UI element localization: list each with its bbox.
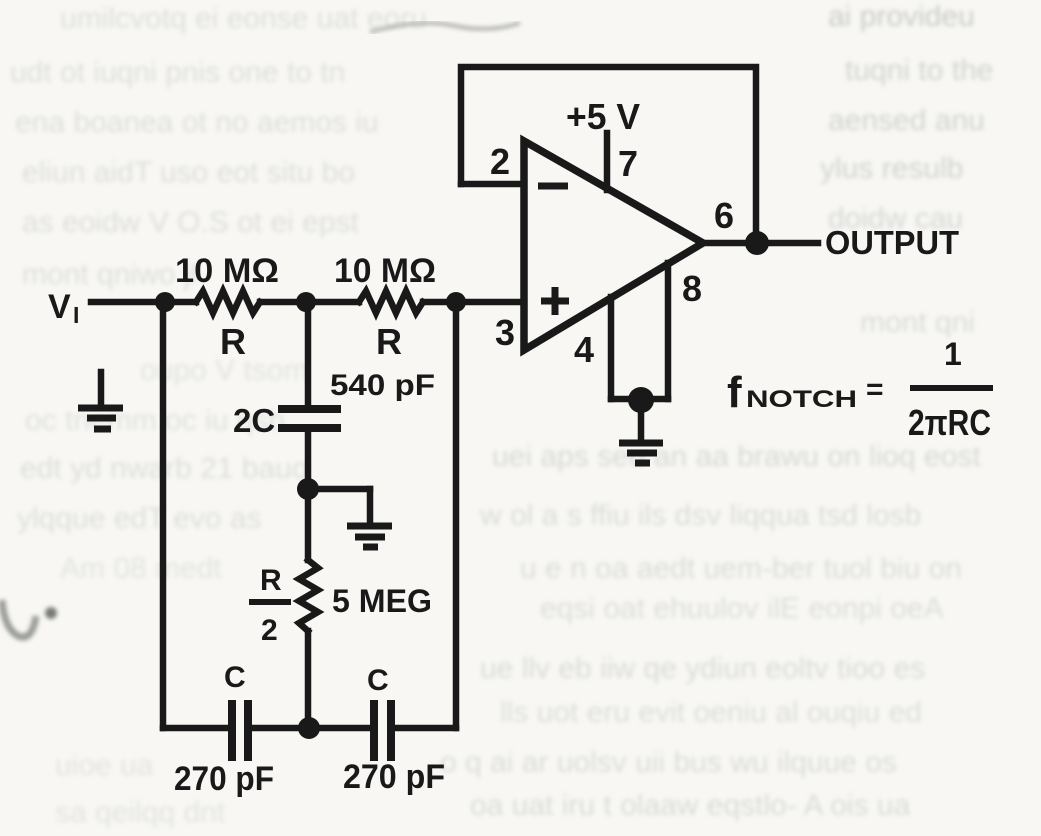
wire: feedback loop from pin 2 up over to output [461,67,756,243]
svg-text:ue llv eb iiw qe ydiun eoltv t: ue llv eb iiw qe ydiun eoltv tioo es [480,652,925,685]
svg-text:mont qni: mont qni [860,306,975,339]
svg-text:1: 1 [944,336,962,372]
capacitor C left (270 pF) [232,700,248,761]
junction node B [446,292,466,312]
ghost U. handwriting [2,600,57,637]
ground (op-amp pins 4,8) [619,443,663,463]
wire: middle vertical node A2 to capacitor 2C [305,302,312,405]
ground (input, floating) [98,372,105,405]
svg-text:ylqque edT evo as: ylqque edT evo as [17,502,262,535]
svg-text:oa uat iru t olaaw eqstlo- A o: oa uat iru t olaaw eqstlo- A ois ua [470,789,911,822]
wire: right vertical node B to bottom rail [453,302,460,728]
wire: bottom rail middle segment [251,725,370,732]
resistor R/2 (5 MEG) [299,560,318,631]
svg-text:o q ai ar uolsv uii bus wu ilq: o q ai ar uolsv uii bus wu ilquue os [440,746,897,779]
junction node A [155,292,175,312]
svg-text:NOTCH: NOTCH [746,386,857,413]
svg-text:ylus resulb: ylus resulb [820,152,963,185]
svg-text:2C: 2C [233,402,275,439]
wire: ground tap horizontal [308,486,370,493]
svg-text:uioe ua: uioe ua [55,749,154,782]
capacitor 2C (540 pF) [278,405,341,413]
svg-text:+5 V: +5 V [566,96,640,137]
svg-text:5 MEG: 5 MEG [332,583,432,619]
svg-text:V: V [48,288,71,326]
svg-text:10 MΩ: 10 MΩ [334,252,436,290]
svg-text:aensed anu: aensed anu [828,104,985,137]
svg-text:ai provideu: ai provideu [828,0,975,33]
op-amp U1 triangle [524,141,703,350]
svg-text:3: 3 [495,312,515,353]
svg-text:lls uot eru evit oeniu al ouqi: lls uot eru evit oeniu al ouqiu ed [500,696,922,729]
svg-text:eqsi oat ehuulov ilE eonpi oeA: eqsi oat ehuulov ilE eonpi oeA [540,592,944,625]
wire: ground tap vertical [367,489,374,521]
svg-text:2πRC: 2πRC [908,402,991,443]
svg-text:270 pF: 270 pF [174,760,274,798]
svg-text:eliun aidT uso eot situ bo: eliun aidT uso eot situ bo [22,156,355,189]
plus symbol inside op-amp [541,298,569,305]
svg-text:I: I [73,302,79,328]
wire: pin 2 to feedback [461,181,524,188]
resistor R1 (10 M ohm) [196,291,260,313]
ghost swoosh [370,23,520,32]
formula fraction bar [910,385,993,391]
wire: R/2 to bottom rail [305,631,312,728]
svg-text:mont qniwo jl: mont qniwo jl [22,258,197,291]
svg-text:udt ot iuqni pnis one to tn: udt ot iuqni pnis one to tn [10,56,345,89]
svg-text:OUTPUT: OUTPUT [825,225,960,262]
wire: node A to node B [260,299,359,306]
capacitor C right (270 pF) [374,700,391,761]
svg-text:=: = [866,373,884,406]
wire: output from apex [700,240,818,247]
wire: pin 7 +5V supply [604,133,611,190]
svg-text:Am 08 medt: Am 08 medt [60,552,222,585]
svg-text:R: R [260,564,282,597]
svg-text:uei aps seu an aa brawu on lio: uei aps seu an aa brawu on lioq eost [492,440,981,473]
resistor R2 (10 M ohm) [359,291,423,313]
svg-text:sa qeilqq dnt: sa qeilqq dnt [55,796,226,829]
svg-text:tuqni to the: tuqni to the [845,54,993,87]
svg-text:u e n oa aedt uem-ber tuol biu: u e n oa aedt uem-ber tuol biu on [520,552,962,585]
junction node bottom rail [298,717,320,739]
svg-text:10 MΩ: 10 MΩ [175,252,279,290]
wire: 2C to ground node [305,431,312,489]
junction node output pin 6 [745,231,769,255]
minus symbol inside op-amp [538,183,568,190]
junction node A2 [296,292,316,312]
svg-text:2: 2 [261,614,278,647]
svg-text:2: 2 [490,141,510,182]
svg-text:as eoidw V O.S ot ei epst: as eoidw V O.S ot ei epst [22,206,360,239]
wire: bottom rail left segment [163,725,228,732]
wire: node B to op-amp pin 3 [423,299,524,306]
svg-text:C: C [224,661,246,694]
svg-text:4: 4 [574,329,594,370]
svg-text:7: 7 [618,143,638,184]
svg-text:R: R [220,321,246,362]
wire: pin4-pin8 join [611,396,668,403]
svg-text:540 pF: 540 pF [330,369,435,402]
svg-text:R: R [376,321,402,362]
svg-text:8: 8 [682,268,702,309]
wire: pin 8 down [665,263,672,399]
svg-text:f: f [727,368,742,417]
wire: pin 4 down [608,297,615,399]
wire: input from VI to node A [91,299,196,306]
wire: bottom rail right segment [393,725,456,732]
junction node 2C/R2 ground tap [297,478,319,500]
svg-text:w ol a s ffiu ils dsv liqqua t: w ol a s ffiu ils dsv liqqua tsd losb [479,499,921,532]
junction node pins 4/8 [628,387,654,413]
wire: stub to op-amp ground [638,399,645,438]
svg-text:ena boanea ot no aemos iu: ena boanea ot no aemos iu [15,106,379,139]
svg-text:C: C [367,664,389,697]
wire: ground node to resistor R/2 [305,489,312,560]
svg-text:6: 6 [714,195,734,236]
ground (middle) [347,526,392,547]
svg-text:270 pF: 270 pF [343,758,445,796]
wire: left vertical from node A down to bottom rail [160,302,167,728]
